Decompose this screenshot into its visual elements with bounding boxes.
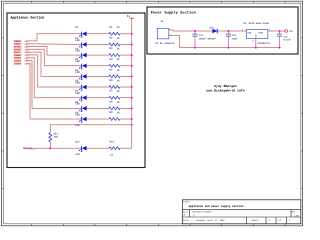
- wire Message row: [34, 125, 132, 149]
- wire Oven to row 5: [26, 52, 81, 76]
- svg-text:1k: 1k: [117, 58, 121, 61]
- resistor R5 1k: [109, 68, 120, 77]
- wire J4 pin1 to top rail: [169, 29, 173, 31]
- wire row 5: [87, 75, 132, 77]
- svg-text:www.RickeyWorld.info: www.RickeyWorld.info: [206, 89, 244, 93]
- LED D5: [75, 69, 86, 85]
- junction row 2 on rail: [131, 43, 133, 45]
- svg-text:&gt;: &gt;: [32, 147, 38, 150]
- net label Lamp3: [14, 60, 30, 63]
- net label Message: [23, 147, 37, 150]
- diode D10 1N4007: [207, 27, 217, 41]
- svg-text:1.00: 1.00: [294, 214, 300, 217]
- Power Supply Section box: [147, 7, 298, 54]
- bottom rail wire: [180, 47, 280, 49]
- wire J4 pin2 down: [169, 36, 180, 48]
- junction VOUT node: [279, 30, 281, 32]
- svg-text:D10: D10: [209, 27, 214, 30]
- junction row 7 on rail: [131, 97, 133, 99]
- resistor R13 1k: [109, 141, 120, 157]
- svg-text:R8: R8: [109, 100, 113, 103]
- svg-text:D11: D11: [75, 141, 80, 144]
- svg-text:10uF: 10uF: [232, 37, 238, 40]
- LED D1: [75, 26, 86, 42]
- svg-text:R6: R6: [109, 79, 113, 82]
- svg-text:Document Number: Document Number: [193, 211, 213, 214]
- LED D2: [75, 37, 86, 53]
- wire U2 VOUT: [268, 30, 285, 32]
- net label Bulb2: [14, 48, 30, 51]
- svg-text:R13: R13: [110, 141, 115, 144]
- svg-text:Title: Title: [183, 201, 190, 204]
- svg-text:D8: D8: [75, 101, 79, 104]
- svg-text:R3: R3: [109, 47, 113, 50]
- junction row 5 on rail: [131, 75, 133, 77]
- svg-text:D1: D1: [75, 26, 79, 29]
- svg-text:VIN: VIN: [247, 31, 252, 34]
- capacitor C12 10uF: [226, 31, 231, 48]
- author text: [206, 84, 244, 93]
- svg-text:1k: 1k: [110, 153, 114, 156]
- junction rail bottom: [131, 124, 133, 126]
- wire 5V rail: [131, 20, 133, 125]
- zone ticks top edge: [32, 1, 285, 3]
- wire Tube2 to row 2: [26, 43, 81, 46]
- svg-text:D4: D4: [75, 58, 79, 61]
- svg-text:100uF: 100uF: [199, 37, 207, 40]
- junction row 1 on rail: [131, 33, 133, 35]
- LED D8: [75, 101, 86, 117]
- svg-text:D3: D3: [75, 48, 79, 51]
- wire row 9: [87, 118, 132, 120]
- Appliance Section box: [7, 13, 145, 168]
- wire row 6: [87, 86, 132, 88]
- wire Lamp1 to row 6: [26, 55, 81, 87]
- svg-text:9V DC Adapter: 9V DC Adapter: [155, 42, 175, 45]
- svg-text:R1: R1: [109, 26, 113, 29]
- svg-text:1k: 1k: [117, 111, 121, 114]
- junction row 8 on rail: [131, 107, 133, 109]
- wire row 4: [87, 65, 132, 67]
- junction row 6 on rail: [131, 86, 133, 88]
- svg-text:VOUT: VOUT: [258, 31, 264, 34]
- svg-text:D7: D7: [75, 90, 79, 93]
- svg-text:&gt;: &gt;: [24, 62, 30, 65]
- net label Lamp2: [14, 57, 30, 60]
- svg-text:LED: LED: [75, 153, 80, 156]
- LED D4: [75, 58, 86, 74]
- svg-text:R4: R4: [109, 58, 113, 61]
- svg-text:Ajay Bhargav: Ajay Bhargav: [214, 84, 237, 88]
- wire Lamp3 to row 8: [26, 61, 81, 109]
- LED D7: [75, 90, 86, 106]
- svg-text:1k: 1k: [117, 90, 121, 93]
- resistor R8 1k: [109, 100, 120, 109]
- svg-text:J4: J4: [160, 20, 164, 23]
- wire return to rail bottom: [50, 124, 131, 126]
- connector J4: [155, 20, 175, 45]
- svg-text:R5: R5: [109, 68, 113, 71]
- wire row 3: [87, 54, 132, 56]
- top rail wire: [173, 30, 246, 32]
- wire Bulb1 to row 3: [26, 47, 81, 56]
- resistor R4 1k: [109, 58, 120, 67]
- resistor R9 1k: [109, 111, 120, 120]
- svg-text:Lamp4: Lamp4: [14, 62, 22, 65]
- net label Bulb1: [14, 46, 30, 49]
- junction GND rail: [255, 47, 257, 49]
- svg-text:D5: D5: [75, 69, 79, 72]
- wire Lamp4 to row 9: [26, 63, 81, 119]
- junction R12 bottom: [49, 147, 51, 149]
- svg-text:1k: 1k: [117, 48, 121, 51]
- regulator U2 LM7805: [242, 22, 272, 45]
- wire Tube1 to row 1: [26, 34, 81, 41]
- junction row 9 on rail: [131, 118, 133, 120]
- svg-text:U2: U2: [243, 22, 247, 25]
- wire Bulb2 to row 4: [26, 49, 81, 65]
- svg-text:1k: 1k: [117, 37, 121, 40]
- svg-text:Tuesday, April 17, 2007: Tuesday, April 17, 2007: [196, 219, 225, 222]
- resistor R1 1k: [109, 26, 120, 35]
- resistor R2 1k: [109, 36, 120, 45]
- net label Lamp4: [14, 62, 30, 65]
- wire U2 GND to bottom rail: [255, 39, 257, 48]
- resistor R12 10k vertical: [49, 125, 59, 149]
- svg-text:1k: 1k: [117, 69, 121, 72]
- svg-text:D2: D2: [75, 37, 79, 40]
- LED D9: [75, 111, 86, 127]
- net label Oven: [14, 51, 30, 54]
- resistor R7 1k: [109, 90, 120, 99]
- svg-text:R2: R2: [109, 36, 113, 39]
- LED D3: [75, 48, 86, 64]
- svg-text:+5v: +5v: [288, 30, 293, 33]
- LED D6: [75, 79, 86, 95]
- resistor R3 1k: [109, 47, 120, 56]
- svg-text:Appliance and power supply sec: Appliance and power supply section: [189, 205, 244, 208]
- svg-text:Power Supply Section: Power Supply Section: [151, 10, 196, 15]
- svg-text:With Heat-Sink: With Heat-Sink: [249, 22, 270, 25]
- LED D11: [75, 141, 86, 157]
- svg-text:0.1uF: 0.1uF: [283, 39, 291, 42]
- wire row 7: [87, 97, 132, 99]
- svg-text:LM7805T/U: LM7805T/U: [257, 42, 270, 45]
- zone ticks right edge: [301, 38, 303, 189]
- junction row 3 on rail: [131, 54, 133, 56]
- svg-text:Sheet: Sheet: [252, 219, 259, 222]
- power symbol +5v: [285, 30, 294, 33]
- svg-text:R7: R7: [109, 90, 113, 93]
- title block text: [183, 201, 300, 222]
- junction row 4 on rail: [131, 65, 133, 67]
- wire Lamp2 to row 7: [26, 58, 81, 98]
- svg-text:1k: 1k: [117, 101, 121, 104]
- wire row 2: [87, 43, 132, 45]
- svg-text:1N4007: 1N4007: [207, 37, 216, 40]
- svg-text:1k: 1k: [117, 79, 121, 82]
- zone ticks left edge: [2, 38, 4, 189]
- svg-text:1k: 1k: [117, 26, 121, 29]
- zone ticks bottom edge: [32, 224, 285, 226]
- wire row 8: [87, 107, 132, 109]
- net label Tube2: [14, 43, 30, 46]
- title block: [182, 200, 300, 224]
- wire row 1: [87, 33, 132, 35]
- power symbol 5V: [127, 15, 134, 20]
- net label Lamp1: [14, 54, 30, 57]
- svg-text:R9: R9: [109, 111, 113, 114]
- capacitor C11 100uF: [192, 31, 197, 48]
- svg-text:10k: 10k: [54, 135, 59, 138]
- resistor R6 1k: [109, 79, 120, 88]
- svg-text:Appliance Section: Appliance Section: [11, 16, 45, 21]
- svg-text:5v: 5v: [127, 15, 131, 18]
- net label Tube1: [14, 40, 30, 43]
- svg-text:Date:: Date:: [183, 219, 190, 222]
- svg-text:D6: D6: [75, 79, 79, 82]
- capacitor C13 0.1uF: [277, 31, 282, 48]
- svg-text:D9: D9: [75, 111, 79, 114]
